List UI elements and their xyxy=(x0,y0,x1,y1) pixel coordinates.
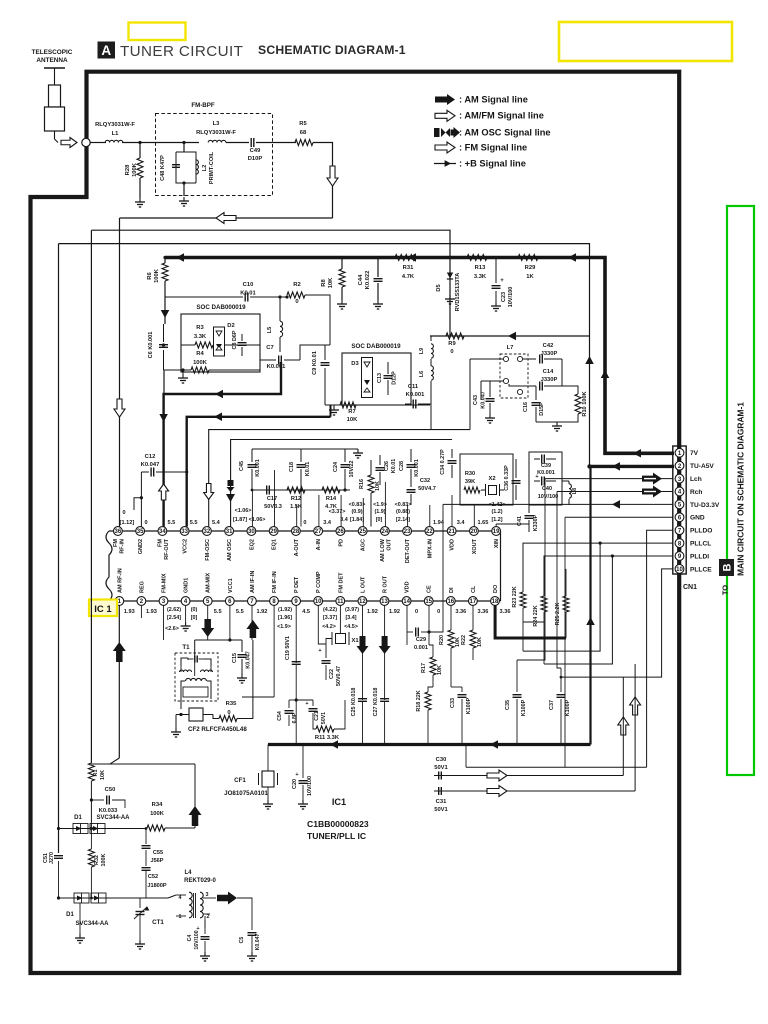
+B arrowhead xyxy=(161,310,170,318)
node xyxy=(604,452,606,454)
capacitor C40 xyxy=(541,477,543,486)
tank circuit C48+L2 wires xyxy=(176,152,196,183)
svg-text:10K: 10K xyxy=(100,770,106,780)
svg-text:R9: R9 xyxy=(448,341,456,347)
wire xyxy=(341,258,343,270)
svg-text:MAIN CIRCUIT ON SCHEMATIC DIAG: MAIN CIRCUIT ON SCHEMATIC DIAGRAM-1 xyxy=(736,402,746,576)
transformer L4 xyxy=(189,892,192,918)
svg-text:RLQY3031W-F: RLQY3031W-F xyxy=(95,122,135,128)
capacitor C41 xyxy=(528,505,530,513)
svg-text:100K: 100K xyxy=(150,811,165,817)
resistor R9 xyxy=(446,333,464,339)
capacitor C55 xyxy=(145,828,147,844)
wire xyxy=(90,781,92,828)
svg-text:GND: GND xyxy=(690,515,705,522)
inductor L5 xyxy=(280,321,283,337)
svg-text:SOC DAB000019: SOC DAB000019 xyxy=(351,343,401,350)
svg-text:0: 0 xyxy=(122,510,125,516)
svg-text:R4: R4 xyxy=(196,351,204,357)
svg-text:C23: C23 xyxy=(501,292,507,302)
svg-text:C35: C35 xyxy=(505,700,511,710)
IC1 pin 30 xyxy=(247,527,256,536)
wire xyxy=(237,640,253,719)
svg-text:PD: PD xyxy=(338,539,344,547)
wire (riser to SOC2) xyxy=(330,405,332,417)
+B arrowhead xyxy=(568,253,576,262)
svg-text:<2.6>: <2.6> xyxy=(165,626,179,632)
svg-text:26: 26 xyxy=(337,529,344,535)
svg-text:IC 1: IC 1 xyxy=(94,604,112,615)
module SOC DAB000019 (1) box xyxy=(181,314,260,372)
wire (Rch line) xyxy=(557,491,673,493)
svg-text:3.3K: 3.3K xyxy=(194,334,207,340)
svg-text:R5: R5 xyxy=(299,121,307,127)
svg-text:<1.9>: <1.9> xyxy=(277,624,291,630)
resistor R16 xyxy=(368,475,374,493)
DO thick path xyxy=(495,605,566,638)
svg-text:D3: D3 xyxy=(351,361,359,367)
IC1 pin 25 xyxy=(358,527,367,536)
svg-text:11: 11 xyxy=(337,599,344,605)
svg-text:K0.047: K0.047 xyxy=(141,462,160,468)
svg-text:1.65: 1.65 xyxy=(477,520,488,526)
connector CN1 pin 7 xyxy=(675,526,684,535)
capacitor C7 xyxy=(260,359,276,361)
wire (pin 29 stub) xyxy=(274,470,276,527)
ground (C20) xyxy=(302,800,304,804)
svg-text:(2.62): (2.62) xyxy=(167,607,181,613)
svg-text:X2: X2 xyxy=(488,476,495,482)
IC1 body outline (left edge) xyxy=(106,531,112,601)
wire (pin 25 stub) xyxy=(362,498,364,527)
svg-text:3: 3 xyxy=(206,892,209,898)
wire (y=898 rail) xyxy=(59,897,147,899)
capacitor C10 xyxy=(165,296,243,298)
svg-text:35: 35 xyxy=(137,529,144,535)
svg-text:50V1: 50V1 xyxy=(434,765,448,771)
svg-text:: FM Signal line: : FM Signal line xyxy=(459,142,527,152)
wire xyxy=(430,381,432,404)
connector CN1 pin 1 xyxy=(675,448,684,457)
wire xyxy=(205,914,210,925)
capacitor C16 xyxy=(535,386,537,400)
capacitor C26 xyxy=(379,455,381,465)
svg-text:L5: L5 xyxy=(267,327,273,334)
svg-text:(0.9): (0.9) xyxy=(351,509,362,515)
resistor R17 xyxy=(430,657,436,675)
wire (to C48/L2 tank) xyxy=(183,143,185,153)
svg-text:C54: C54 xyxy=(277,711,283,721)
svg-text:10V/100: 10V/100 xyxy=(538,494,559,500)
svg-text:R3: R3 xyxy=(196,325,204,331)
wire (line B) xyxy=(91,230,450,336)
connector CN1 pin 4 xyxy=(675,487,684,496)
svg-text:C9 K0.01: C9 K0.01 xyxy=(312,351,318,375)
svg-text:<4.2>: <4.2> xyxy=(322,624,336,630)
svg-text:[1.96]: [1.96] xyxy=(278,615,292,621)
wire (y=640 link) xyxy=(195,639,242,641)
box (C39/C40) xyxy=(529,452,562,505)
+B arrowhead xyxy=(586,617,595,625)
wire xyxy=(465,745,467,768)
svg-text:CF1: CF1 xyxy=(234,777,246,784)
svg-text:C5: C5 xyxy=(239,937,245,944)
inductor L8 xyxy=(569,484,571,498)
AM/FM arrow (Lch) xyxy=(642,473,662,485)
wire (pin 23 stub) xyxy=(407,505,409,527)
svg-text:RLQY3031W-F: RLQY3031W-F xyxy=(196,130,236,136)
svg-text:0: 0 xyxy=(450,349,453,355)
wire xyxy=(279,297,281,321)
+B arrowhead xyxy=(176,253,184,262)
svg-text:IC1: IC1 xyxy=(332,797,346,807)
svg-text:68: 68 xyxy=(300,130,307,136)
wire xyxy=(326,639,332,649)
capacitor C19 xyxy=(292,661,301,663)
wire (R28 branch) xyxy=(139,143,141,159)
wire (PLLCL line) xyxy=(523,543,673,651)
wire xyxy=(568,481,570,484)
ground (C23) xyxy=(495,302,497,306)
svg-text:C41: C41 xyxy=(517,516,523,526)
svg-text:0: 0 xyxy=(144,520,147,526)
IC1 pin 14 xyxy=(402,597,411,606)
wire xyxy=(562,386,578,394)
svg-text:12: 12 xyxy=(359,599,366,605)
wire xyxy=(183,183,185,196)
svg-text:10K: 10K xyxy=(437,665,443,675)
wire xyxy=(431,336,450,341)
svg-text:P COMP: P COMP xyxy=(316,571,322,593)
svg-text:D10P: D10P xyxy=(248,156,263,162)
inductor L9 xyxy=(431,344,433,358)
svg-text:34: 34 xyxy=(159,529,166,535)
svg-text:R18 22K: R18 22K xyxy=(416,690,422,711)
FM arrow (open right, C30) xyxy=(487,770,507,781)
crystal X2 xyxy=(489,486,497,495)
svg-text:C45: C45 xyxy=(239,461,245,471)
svg-text:PLLCE: PLLCE xyxy=(690,566,712,573)
wire (PLLDO line) xyxy=(647,530,673,767)
+B arrowhead xyxy=(490,740,498,749)
svg-text:K0.047: K0.047 xyxy=(255,934,261,951)
svg-text:VCC1: VCC1 xyxy=(228,578,234,593)
svg-text:13: 13 xyxy=(381,599,388,605)
svg-text:0: 0 xyxy=(227,710,230,716)
svg-text:L OUT: L OUT xyxy=(360,576,366,593)
resistor R10 xyxy=(575,394,581,414)
svg-text:C8 D6P: C8 D6P xyxy=(232,330,238,349)
svg-text:R16: R16 xyxy=(359,479,365,489)
IC1 pin 34 xyxy=(158,527,167,536)
resistor R8 xyxy=(339,269,345,287)
wire xyxy=(489,381,491,397)
svg-text:FM IF-IN: FM IF-IN xyxy=(272,571,278,593)
resistor R13 xyxy=(467,255,487,261)
svg-text:AM IF-IN: AM IF-IN xyxy=(250,571,256,593)
svg-text:D15P: D15P xyxy=(539,402,545,416)
svg-text:0: 0 xyxy=(303,520,306,526)
wire xyxy=(90,829,92,850)
IC1 pin 33 xyxy=(180,527,189,536)
wire xyxy=(536,414,578,422)
AM arrow (solid up, pin 7) xyxy=(246,620,259,638)
svg-text:<1.9>: <1.9> xyxy=(373,502,387,508)
border frame (thick) xyxy=(31,70,680,973)
svg-text:K0.001: K0.001 xyxy=(267,364,286,370)
resistor R32 xyxy=(88,849,94,867)
svg-text:D1: D1 xyxy=(74,815,82,821)
wire (pin 26 stub) xyxy=(340,495,342,527)
svg-text:K0.001: K0.001 xyxy=(537,470,555,476)
svg-text:R20: R20 xyxy=(439,635,445,645)
svg-text:1.92: 1.92 xyxy=(367,609,378,615)
capacitor C13 xyxy=(387,362,389,374)
svg-text:R14: R14 xyxy=(326,496,337,502)
svg-text:C49: C49 xyxy=(250,148,261,154)
svg-text:C22: C22 xyxy=(329,669,335,679)
svg-text:4.5: 4.5 xyxy=(302,609,310,615)
svg-text:22: 22 xyxy=(426,529,433,535)
svg-text:100K: 100K xyxy=(101,853,107,866)
capacitor C36 xyxy=(515,459,517,478)
svg-text:4: 4 xyxy=(179,895,182,901)
svg-text:TELESCOPIC: TELESCOPIC xyxy=(32,49,73,56)
wire xyxy=(429,645,433,657)
svg-text:XOUT: XOUT xyxy=(472,538,478,554)
svg-text:10: 10 xyxy=(315,599,322,605)
svg-text:<1.06>: <1.06> xyxy=(249,517,266,523)
resistor R35 xyxy=(219,716,237,722)
svg-text:D12P: D12P xyxy=(392,371,398,385)
svg-text:VDD: VDD xyxy=(450,539,456,551)
svg-text:SVC344-AA: SVC344-AA xyxy=(96,815,130,821)
node xyxy=(163,256,166,259)
svg-text:36: 36 xyxy=(115,529,122,535)
svg-text:FM DET: FM DET xyxy=(338,572,344,593)
svg-text:3.36: 3.36 xyxy=(477,609,488,615)
wire (line C) xyxy=(59,244,590,466)
capacitor C48 xyxy=(172,164,180,166)
IC1 pin 1 xyxy=(115,597,124,606)
ground (C4) xyxy=(204,952,206,956)
wire (pin 6 stub) xyxy=(229,605,231,640)
capacitor C8 xyxy=(241,334,243,341)
wire xyxy=(451,686,462,688)
diode pack D1 (lower) xyxy=(74,893,89,903)
IC1 pin 19 xyxy=(492,527,501,536)
svg-text:25: 25 xyxy=(359,529,366,535)
connector CN1 pin 3 xyxy=(675,474,684,483)
wire xyxy=(480,381,482,400)
pin 35 elbow xyxy=(134,498,141,510)
svg-text:PLLCL: PLLCL xyxy=(690,541,711,548)
diode pack D2 xyxy=(214,327,225,356)
svg-text:1.93: 1.93 xyxy=(124,609,135,615)
wire xyxy=(428,687,433,692)
capacitor C17 xyxy=(266,486,268,495)
IC1 pin 9 xyxy=(292,597,301,606)
IC1 body outline (right edge) xyxy=(500,531,502,601)
resistor R30 xyxy=(464,487,480,493)
svg-text:R12: R12 xyxy=(291,496,301,502)
+B arrowhead xyxy=(612,500,620,509)
svg-text:18: 18 xyxy=(492,599,499,605)
svg-text:10V/100: 10V/100 xyxy=(307,776,313,796)
wire (pin 1 riser) xyxy=(118,605,120,758)
wire xyxy=(164,258,166,264)
transformer T1 dashed box xyxy=(175,653,218,701)
svg-text:1.93: 1.93 xyxy=(146,609,157,615)
svg-text:17: 17 xyxy=(470,599,477,605)
svg-text:R13: R13 xyxy=(475,265,486,271)
inductor L1 xyxy=(105,140,123,142)
svg-text:EQ1: EQ1 xyxy=(272,539,278,550)
wire (to pin stubs) xyxy=(300,345,330,360)
FM-BPF dashed box xyxy=(156,114,273,196)
ground (rail) xyxy=(357,449,359,453)
svg-text:C55: C55 xyxy=(153,850,163,856)
svg-text:C21: C21 xyxy=(314,711,320,721)
wire xyxy=(472,605,474,630)
svg-text:C7: C7 xyxy=(266,345,273,351)
capacitor C51 xyxy=(54,855,63,857)
capacitor C12 xyxy=(141,471,149,473)
+B bus (riser x=590.5) xyxy=(589,466,591,744)
wire xyxy=(180,699,182,709)
svg-text:3.36: 3.36 xyxy=(500,609,511,615)
resistor R4 xyxy=(191,367,209,373)
svg-text:[0]: [0] xyxy=(376,517,383,523)
svg-text:J270: J270 xyxy=(49,852,55,864)
svg-text:SCHEMATIC DIAGRAM-1: SCHEMATIC DIAGRAM-1 xyxy=(258,43,406,57)
wire (pin 24 stub) xyxy=(384,482,386,527)
module SOC DAB000019 (2) box xyxy=(342,353,411,405)
IC1 pin 18 xyxy=(491,597,500,606)
wire xyxy=(90,142,106,144)
wire (C30 row) xyxy=(434,775,623,777)
wire (pin 20 stub) xyxy=(473,505,475,527)
svg-text:K100P: K100P xyxy=(521,699,527,716)
svg-text:31: 31 xyxy=(226,529,233,535)
svg-text:R2: R2 xyxy=(293,282,300,288)
ground (C5) xyxy=(251,952,253,956)
svg-text:29: 29 xyxy=(270,529,277,535)
IC1 highlighted designator xyxy=(89,600,117,617)
wire (pin 14 stub) xyxy=(406,605,408,632)
ground (lower D1 rail) xyxy=(79,934,81,938)
FM arrow (open up) xyxy=(630,697,641,715)
resistor R18 xyxy=(425,692,431,710)
node xyxy=(138,141,141,144)
svg-text:6.8P: 6.8P xyxy=(292,712,298,723)
wire (line B vertical) xyxy=(90,230,92,763)
svg-text:C36 0.33P: C36 0.33P xyxy=(504,465,510,491)
svg-text:5.5: 5.5 xyxy=(214,609,222,615)
capacitor C11 xyxy=(405,403,411,405)
svg-text:B: B xyxy=(722,563,734,571)
svg-text:L4: L4 xyxy=(184,870,192,876)
svg-text:K0.033: K0.033 xyxy=(99,808,118,814)
svg-text:C29: C29 xyxy=(416,637,426,643)
connector CN1 body xyxy=(673,446,686,574)
svg-text:K0.047: K0.047 xyxy=(481,391,487,408)
wire xyxy=(139,932,141,940)
svg-text:(3.97): (3.97) xyxy=(345,607,359,613)
wire xyxy=(325,404,342,406)
inductor L6 xyxy=(431,366,433,380)
IC1 pin 11 xyxy=(336,597,345,606)
svg-text:DO: DO xyxy=(493,584,499,593)
svg-text:28: 28 xyxy=(293,529,300,535)
node xyxy=(448,256,451,259)
svg-text:C30: C30 xyxy=(436,757,447,763)
AM OSC arrow (down at pin 31) xyxy=(228,480,234,486)
capacitor C18 xyxy=(300,449,302,462)
svg-text:SOC DAB000019: SOC DAB000019 xyxy=(196,304,246,311)
capacitor C31 xyxy=(438,787,440,795)
resistor R7 xyxy=(340,402,356,408)
capacitor C23 xyxy=(495,258,497,284)
wire (pin 19 stub) xyxy=(495,524,497,527)
wire (rail y=449) xyxy=(252,448,358,450)
inductor L7 (variable, dashed) xyxy=(500,354,528,398)
svg-text:3.3K: 3.3K xyxy=(474,274,487,280)
svg-text:R25 2.2K: R25 2.2K xyxy=(555,603,561,626)
capacitor C29 xyxy=(407,631,413,633)
wire xyxy=(165,827,195,829)
svg-text:C39: C39 xyxy=(541,463,551,469)
wire (box interior) xyxy=(181,344,195,346)
legend FM Signal line arrow xyxy=(435,142,455,153)
IC1 pin 2 xyxy=(137,597,146,606)
svg-text:(1.92): (1.92) xyxy=(278,607,292,613)
svg-text:32: 32 xyxy=(204,529,211,535)
wire (pin 35 riser) xyxy=(140,472,142,527)
IC1 pin 26 xyxy=(336,527,345,536)
ground (tank) xyxy=(183,197,185,201)
wire xyxy=(226,142,249,144)
AM bus thick (pin 33 feed) xyxy=(187,417,331,527)
wire (C6 column to y=394 corner) xyxy=(163,370,165,394)
svg-text:(4.22): (4.22) xyxy=(323,607,337,613)
IC1 pin 10 xyxy=(314,597,323,606)
+B arrowhead xyxy=(508,332,516,341)
svg-text:10K: 10K xyxy=(347,417,358,423)
wire (TU-D3.3V line) xyxy=(443,503,673,505)
capacitor C30 xyxy=(438,772,440,780)
resistor R1 xyxy=(88,763,94,781)
AM arrow (solid down, pin 5) xyxy=(201,619,214,637)
wire (Lch line) xyxy=(545,478,673,480)
svg-text:7V: 7V xyxy=(690,450,699,457)
node xyxy=(494,256,497,259)
TO B marker xyxy=(719,559,734,576)
svg-text:FM: FM xyxy=(157,539,163,547)
svg-text:C25 K0.018: C25 K0.018 xyxy=(351,688,357,717)
AM arrow (solid right, L4 out) xyxy=(217,892,237,905)
svg-text:R17: R17 xyxy=(421,663,427,673)
svg-text:39K: 39K xyxy=(465,479,475,485)
FM arrow (open down) xyxy=(327,166,338,186)
svg-text:K0.01: K0.01 xyxy=(391,459,397,473)
svg-text:C17: C17 xyxy=(267,496,277,502)
wire (return line y=218) xyxy=(120,217,333,219)
IC1 pin 17 xyxy=(469,597,478,606)
svg-text:<4.5>: <4.5> xyxy=(344,624,358,630)
+B bus (TU-A5V) thick xyxy=(590,465,675,468)
+B arrowhead xyxy=(601,370,610,378)
